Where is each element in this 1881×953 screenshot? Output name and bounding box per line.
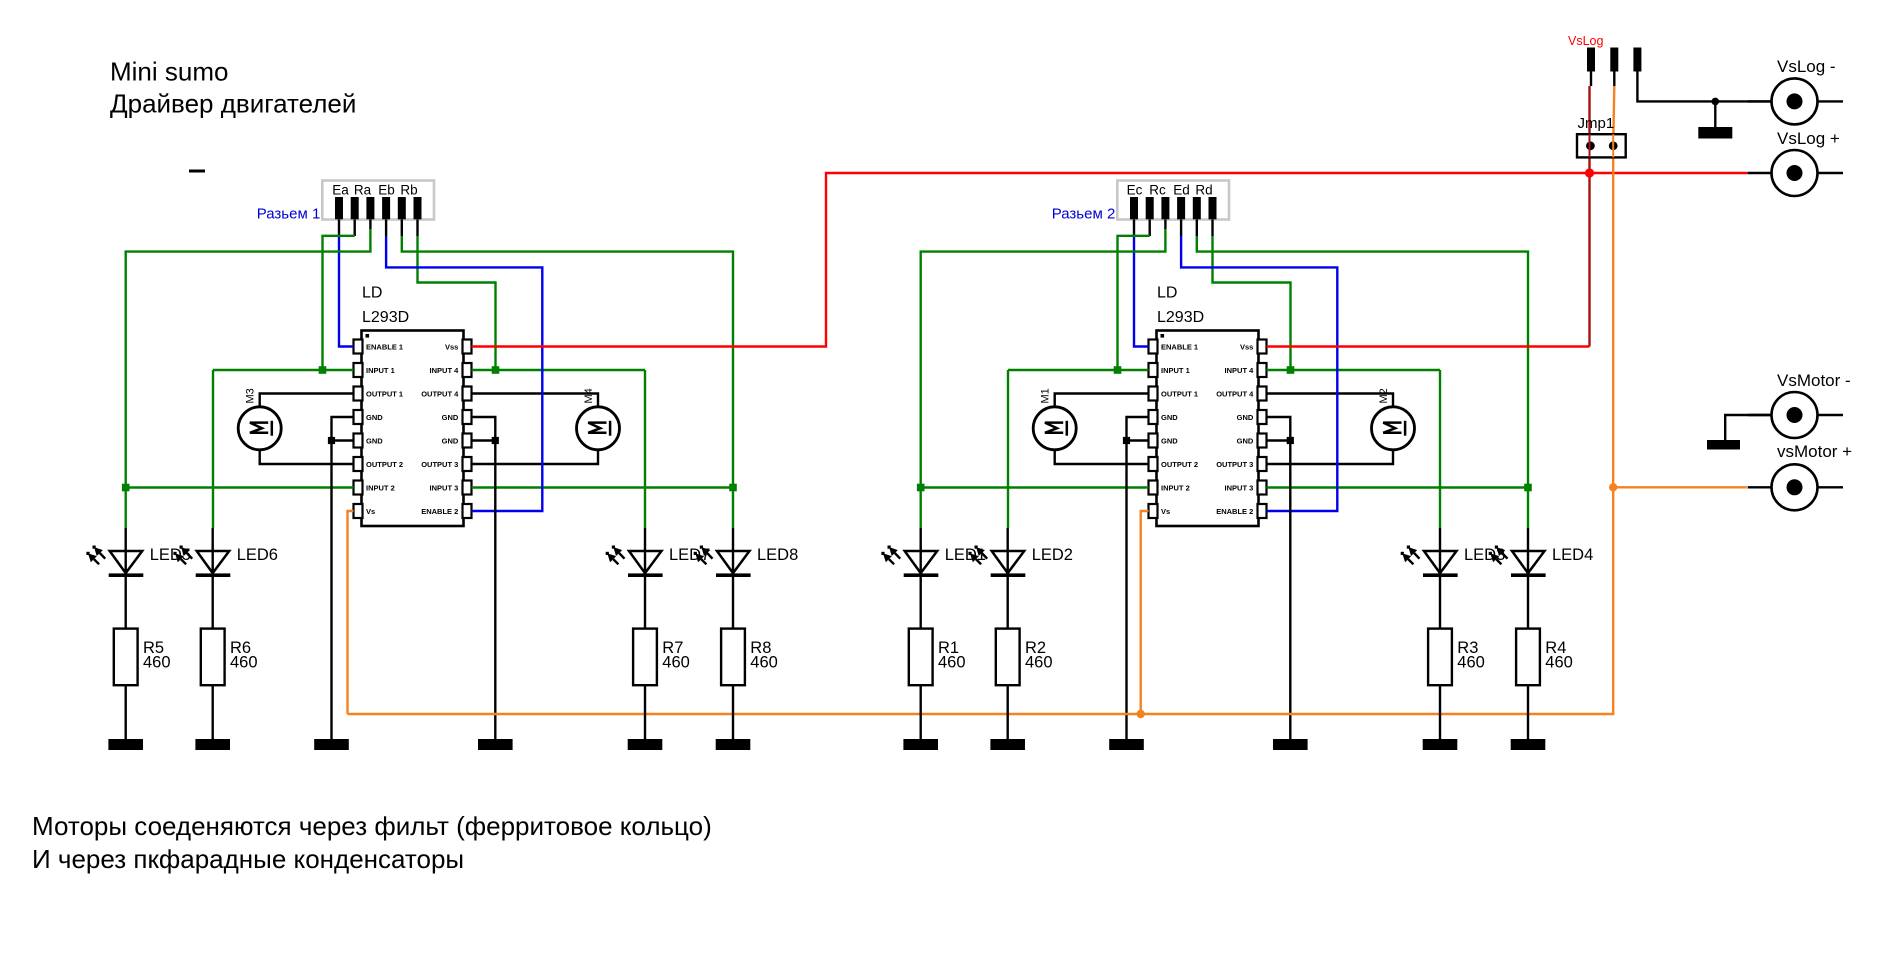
ground	[195, 739, 230, 750]
svg-text:VsLog: VsLog	[1568, 34, 1603, 48]
ground	[108, 739, 143, 750]
pin label Ea	[332, 182, 349, 197]
IC U2 right pin GND	[1237, 434, 1267, 448]
IC U2 body	[1157, 331, 1259, 527]
value 460	[662, 654, 690, 672]
label LED8	[757, 546, 798, 564]
svg-text:И через пкфарадные конденсатор: И через пкфарадные конденсаторы	[32, 844, 464, 874]
IC U2 left pin INPUT 1	[1149, 363, 1190, 377]
label LED5	[150, 546, 191, 564]
label Разьем 1	[257, 205, 321, 222]
connector Разьем 1 pin 4	[382, 197, 390, 219]
resistor R3	[1428, 629, 1452, 686]
power pin 2	[1610, 48, 1618, 87]
IC U2 right pin INPUT 3	[1225, 481, 1267, 495]
svg-text:Разьем 1: Разьем 1	[257, 205, 321, 222]
wire LED feed	[211, 528, 213, 629]
connector lead pin 2	[1148, 220, 1150, 237]
wire LED feed	[1439, 528, 1441, 629]
wire net Rb (blue) to ENABLE 2	[386, 236, 542, 511]
svg-text:GND: GND	[1161, 413, 1178, 422]
label R1	[938, 639, 959, 657]
wire GND left 2	[332, 439, 354, 441]
pin label Eb	[378, 182, 395, 197]
IC U1 left pin GND	[354, 434, 384, 448]
connector lead pin 4	[385, 220, 387, 237]
motor M3	[238, 407, 281, 450]
wire net Ec (blue) to ENABLE 1	[1134, 236, 1149, 347]
power pin 3	[1633, 48, 1641, 72]
svg-text:OUTPUT 2: OUTPUT 2	[1161, 460, 1198, 469]
connector Разьем 1 pin 5	[398, 197, 406, 219]
svg-text:INPUT 2: INPUT 2	[366, 483, 395, 492]
wire resistor to ground	[644, 685, 646, 739]
ground	[628, 739, 663, 750]
svg-text:460: 460	[750, 654, 778, 672]
svg-text:OUTPUT 1: OUTPUT 1	[1161, 389, 1198, 398]
junction INPUT 1	[319, 366, 327, 374]
IC U1 right pin OUTPUT 3	[421, 457, 471, 471]
ground	[716, 739, 751, 750]
value 460	[230, 654, 258, 672]
svg-text:INPUT 1: INPUT 1	[1161, 366, 1190, 375]
wire GND right 2	[472, 439, 496, 441]
label LED3	[1464, 546, 1505, 564]
junction GND left	[328, 437, 335, 444]
pin label Ed	[1173, 182, 1190, 197]
wire OUTPUT top to motor M4	[472, 394, 599, 407]
terminal VsLog -	[1772, 78, 1818, 124]
connector lead pin 5	[1196, 220, 1198, 237]
label R2	[1025, 639, 1046, 657]
label R6	[230, 639, 251, 657]
IC U2 left pin OUTPUT 1	[1149, 387, 1199, 401]
LED LED7	[606, 546, 663, 578]
motor M1	[1033, 407, 1076, 450]
connector Разьем 2 pin 2	[1146, 197, 1154, 219]
terminal lead vsMotor +	[1748, 486, 1843, 488]
connector lead pin 1	[338, 220, 340, 237]
pin label Rc	[1149, 182, 1166, 197]
svg-text:Ra: Ra	[354, 182, 372, 197]
connector Разьем 2 pin 3	[1161, 197, 1169, 219]
wire LED feed	[644, 528, 646, 629]
IC U2 left pin Vs	[1149, 504, 1171, 518]
wire down to LED	[1439, 370, 1441, 528]
resistor R6	[201, 629, 225, 686]
connector lead pin 1	[1133, 220, 1135, 237]
svg-text:Ea: Ea	[332, 182, 349, 197]
svg-text:LED8: LED8	[757, 546, 798, 564]
IC U2 left pin OUTPUT 2	[1149, 457, 1199, 471]
IC U2 right pin INPUT 4	[1225, 363, 1267, 377]
connector Разьем 1 pin 1	[335, 197, 343, 219]
pin label Rb	[400, 182, 417, 197]
terminal lead VsLog +	[1748, 172, 1843, 174]
wire INPUT 4 row	[1267, 369, 1441, 371]
ground	[1273, 739, 1308, 750]
IC U1 value label L293D	[362, 309, 409, 326]
label R8	[750, 639, 771, 657]
label vsMotor +	[1777, 442, 1852, 461]
motor M3 label	[245, 388, 257, 403]
junction INPUT 4	[492, 366, 500, 374]
wire OUTPUT bottom to motor M4	[472, 450, 599, 464]
svg-text:LED2: LED2	[1032, 546, 1073, 564]
wire OUTPUT top to motor M2	[1267, 394, 1394, 407]
IC U1 pin-1 marker	[366, 334, 370, 338]
svg-text:460: 460	[143, 654, 171, 672]
svg-text:ENABLE 1: ENABLE 1	[1161, 342, 1198, 351]
motor M1 label	[1040, 388, 1052, 403]
wire OUTPUT bottom to motor M2	[1267, 450, 1394, 464]
svg-text:OUTPUT 3: OUTPUT 3	[421, 460, 458, 469]
terminal lead VsMotor -	[1748, 414, 1843, 416]
motor M4 label	[583, 388, 595, 403]
pin label Ec	[1127, 182, 1143, 197]
wire net Eb (green) vertical	[126, 229, 371, 488]
svg-text:VsLog +: VsLog +	[1777, 129, 1840, 148]
IC U2 right pin Vss	[1240, 340, 1267, 354]
svg-text:460: 460	[1025, 654, 1053, 672]
svg-text:L293D: L293D	[1157, 309, 1204, 326]
IC U2 right pin ENABLE 2	[1216, 504, 1266, 518]
connector lead pin 2	[354, 220, 356, 237]
wire GND left	[1127, 417, 1149, 739]
wire down to LED	[920, 488, 922, 529]
connector lead pin 3	[1164, 220, 1166, 230]
svg-text:Разьем 2: Разьем 2	[1052, 205, 1116, 222]
IC U1 left pin Vs	[354, 504, 376, 518]
wire INPUT 3 row	[1267, 486, 1529, 488]
ground (VsLog-)	[1698, 101, 1732, 138]
wire net Rc (green) to INPUT 1	[1118, 236, 1150, 370]
wire net Ea (blue) to ENABLE 1	[339, 236, 354, 347]
pin label Rd	[1195, 182, 1212, 197]
junction VsLog- ground	[1712, 98, 1720, 106]
label LED2	[1032, 546, 1073, 564]
svg-text:Драйвер двигателей: Драйвер двигателей	[110, 89, 356, 119]
IC U2 left pin GND	[1149, 410, 1179, 424]
LED LED4	[1489, 546, 1546, 578]
wire Vs U2 (orange)	[1141, 511, 1149, 714]
svg-text:460: 460	[1457, 654, 1485, 672]
IC U2 left pin GND	[1149, 434, 1179, 448]
ground (VsMotor-)	[1707, 440, 1740, 450]
wire resistor to ground	[211, 685, 213, 739]
ground	[1109, 739, 1144, 750]
motor M2 label	[1378, 388, 1390, 403]
wire LED feed	[1007, 528, 1009, 629]
LED LED1	[881, 546, 938, 578]
wire net pin5 (green)	[1197, 236, 1528, 488]
wire INPUT 1 row	[213, 369, 354, 371]
label VsMotor -	[1777, 371, 1851, 390]
label LED6	[237, 546, 278, 564]
junction GND right	[492, 437, 499, 444]
connector Разьем 2 pin 4	[1177, 197, 1185, 219]
IC U2 left pin ENABLE 1	[1149, 340, 1199, 354]
IC U1 right pin INPUT 4	[430, 363, 472, 377]
wire LED feed	[920, 528, 922, 629]
wire net pin5 (green)	[402, 236, 733, 488]
svg-text:460: 460	[662, 654, 690, 672]
junction GND left	[1123, 437, 1130, 444]
wire INPUT 4 row	[472, 369, 646, 371]
wire INPUT 3 row	[472, 486, 734, 488]
svg-text:Rc: Rc	[1149, 182, 1166, 197]
wire resistor to ground	[920, 685, 922, 739]
svg-text:M2: M2	[1378, 388, 1390, 403]
label VsLog +	[1777, 129, 1840, 148]
ground	[903, 739, 938, 750]
label LED1	[945, 546, 986, 564]
svg-text:ENABLE 2: ENABLE 2	[1216, 507, 1253, 516]
connector Разьем 1 pin 3	[366, 197, 374, 219]
svg-text:Ec: Ec	[1127, 182, 1143, 197]
wire down to LED	[1527, 488, 1529, 529]
IC U2 right pin OUTPUT 4	[1216, 387, 1266, 401]
IC U1 left pin INPUT 2	[354, 481, 395, 495]
wire OUTPUT top to motor M1	[1055, 394, 1149, 407]
value 460	[1025, 654, 1053, 672]
label Jmp1	[1578, 115, 1615, 132]
junction VsLog	[1585, 168, 1594, 177]
junction INPUT 1	[1114, 366, 1122, 374]
svg-text:INPUT 3: INPUT 3	[1225, 483, 1254, 492]
svg-text:Rd: Rd	[1195, 182, 1212, 197]
svg-text:Mini sumo: Mini sumo	[110, 57, 228, 87]
ground	[990, 739, 1025, 750]
svg-text:ENABLE 1: ENABLE 1	[366, 342, 403, 351]
svg-text:Eb: Eb	[378, 182, 395, 197]
IC U2 pin-1 marker	[1161, 334, 1165, 338]
svg-text:460: 460	[938, 654, 966, 672]
svg-text:Vss: Vss	[445, 342, 458, 351]
svg-text:vsMotor +: vsMotor +	[1777, 442, 1852, 461]
value 460	[938, 654, 966, 672]
svg-text:ENABLE 2: ENABLE 2	[421, 507, 458, 516]
IC U1 right pin GND	[442, 410, 472, 424]
wire LED feed	[124, 528, 126, 629]
wire GND right	[472, 417, 496, 739]
svg-text:M3: M3	[245, 388, 257, 403]
resistor R2	[996, 629, 1020, 686]
label Разьем 2	[1052, 205, 1116, 222]
label VsLog -	[1777, 57, 1836, 76]
label R3	[1457, 639, 1478, 657]
wire INPUT 1 down to LED	[1007, 370, 1009, 528]
junction INPUT 2	[917, 484, 925, 492]
svg-text:LED4: LED4	[1552, 546, 1593, 564]
connector Разьем 2 box	[1117, 181, 1229, 220]
ground	[314, 739, 349, 750]
svg-text:GND: GND	[1237, 413, 1254, 422]
svg-text:460: 460	[1545, 654, 1573, 672]
wire net pin6 (green)	[418, 236, 496, 370]
label R4	[1545, 639, 1566, 657]
wire down to LED	[124, 488, 126, 529]
jumper Jmp1	[1577, 134, 1626, 157]
svg-text:LD: LD	[362, 285, 382, 302]
wire GND left	[332, 417, 354, 739]
svg-text:INPUT 2: INPUT 2	[1161, 483, 1190, 492]
svg-text:GND: GND	[442, 436, 459, 445]
IC U1 right pin ENABLE 2	[421, 504, 471, 518]
svg-text:VsMotor -: VsMotor -	[1777, 371, 1851, 390]
svg-text:VsLog -: VsLog -	[1777, 57, 1836, 76]
wire resistor to ground	[1439, 685, 1441, 739]
svg-text:L293D: L293D	[362, 309, 409, 326]
ground	[478, 739, 513, 750]
svg-text:OUTPUT 1: OUTPUT 1	[366, 389, 403, 398]
terminal lead VsLog -	[1748, 100, 1843, 102]
wire INPUT 1 row	[1008, 369, 1149, 371]
resistor R5	[114, 629, 138, 686]
wire pin2 to Jmp1 (orange)	[1613, 86, 1614, 487]
svg-text:LED6: LED6	[237, 546, 278, 564]
svg-text:INPUT 4: INPUT 4	[430, 366, 460, 375]
wire resistor to ground	[1007, 685, 1009, 739]
terminal VsLog +	[1772, 150, 1818, 196]
connector lead pin 4	[1180, 220, 1182, 237]
value 460	[1457, 654, 1485, 672]
svg-text:INPUT 4: INPUT 4	[1225, 366, 1255, 375]
terminal vsMotor +	[1772, 464, 1818, 510]
wire INPUT 1 down to LED	[212, 370, 214, 528]
svg-text:M1: M1	[1040, 388, 1052, 403]
IC U1 right pin OUTPUT 4	[421, 387, 471, 401]
svg-text:Vss: Vss	[1240, 342, 1253, 351]
dash mark	[189, 170, 205, 173]
svg-text:460: 460	[230, 654, 258, 672]
wire net Ed (green) vertical	[921, 229, 1166, 488]
wire Vss U2 (red)	[1267, 345, 1590, 347]
IC U2 left pin INPUT 2	[1149, 481, 1190, 495]
wire GND right 2	[1267, 439, 1291, 441]
wire Vs U1 (orange)	[348, 511, 354, 714]
wire down to LED	[644, 370, 646, 528]
wire VsMotor- to ground	[1725, 415, 1771, 440]
connector lead pin 6	[416, 220, 418, 237]
wire resistor to ground	[1527, 685, 1529, 739]
title text 'Mini sumo'	[110, 57, 228, 87]
title text 'Драйвер двигателей'	[110, 89, 356, 119]
label LED4	[1552, 546, 1593, 564]
junction INPUT 3	[729, 484, 737, 492]
connector Разьем 2 pin 5	[1193, 197, 1201, 219]
junction INPUT 4	[1287, 366, 1295, 374]
svg-text:Ed: Ed	[1173, 182, 1190, 197]
svg-text:OUTPUT 2: OUTPUT 2	[366, 460, 403, 469]
svg-text:GND: GND	[366, 413, 383, 422]
wire resistor to ground	[732, 685, 734, 739]
svg-text:GND: GND	[442, 413, 459, 422]
connector Разьем 1 box	[322, 181, 434, 220]
svg-text:Jmp1: Jmp1	[1578, 115, 1615, 132]
connector Разьем 1 pin 2	[351, 197, 359, 219]
note line 2	[32, 844, 464, 874]
ground	[1511, 739, 1546, 750]
svg-text:GND: GND	[1161, 436, 1178, 445]
label VsLog (red)	[1568, 34, 1603, 48]
wire OUTPUT top to motor M3	[260, 394, 354, 407]
svg-text:LD: LD	[1157, 285, 1177, 302]
IC U2 value label L293D	[1157, 309, 1204, 326]
note line 1	[32, 811, 712, 841]
LED LED6	[173, 546, 230, 578]
svg-text:GND: GND	[1237, 436, 1254, 445]
connector lead pin 3	[369, 220, 371, 230]
wire vsMotor bottom rail (orange)	[348, 487, 1614, 714]
wire LED feed	[1527, 528, 1529, 629]
label R5	[143, 639, 164, 657]
resistor R1	[909, 629, 933, 686]
junction GND right	[1287, 437, 1294, 444]
IC U1 right pin Vss	[445, 340, 472, 354]
IC U1 ref label LD	[362, 285, 382, 302]
wire net pin6 (green)	[1213, 236, 1291, 370]
LED LED5	[86, 546, 143, 578]
wire GND left 2	[1127, 439, 1149, 441]
pin label Ra	[354, 182, 372, 197]
wire vsMotor+ (orange)	[1613, 486, 1747, 488]
resistor R8	[721, 629, 745, 686]
wire INPUT 2 row	[126, 486, 354, 488]
motor M2	[1372, 407, 1415, 450]
resistor R7	[633, 629, 657, 686]
svg-text:INPUT 1: INPUT 1	[366, 366, 395, 375]
value 460	[143, 654, 171, 672]
IC U1 right pin GND	[442, 434, 472, 448]
svg-text:Vs: Vs	[366, 507, 375, 516]
IC U1 left pin OUTPUT 2	[354, 457, 404, 471]
IC U1 left pin ENABLE 1	[354, 340, 404, 354]
wire Vss U1 (red)	[472, 173, 1748, 347]
connector Разьем 2 pin 6	[1209, 197, 1217, 219]
IC U1 left pin INPUT 1	[354, 363, 395, 377]
wire INPUT 2 row	[921, 486, 1149, 488]
LED LED2	[968, 546, 1025, 578]
connector lead pin 6	[1211, 220, 1213, 237]
IC U1 left pin OUTPUT 1	[354, 387, 404, 401]
wire VsLog- (black)	[1637, 72, 1771, 102]
power pin 1	[1587, 48, 1595, 87]
wire OUTPUT bottom to motor M1	[1055, 450, 1149, 464]
wire LED feed	[732, 528, 734, 629]
svg-text:M4: M4	[583, 388, 595, 403]
wire net Rd (blue) to ENABLE 2	[1181, 236, 1337, 511]
connector Разьем 1 pin 6	[414, 197, 422, 219]
wire VsLog vertical (dark red)	[1588, 86, 1590, 347]
junction INPUT 2	[122, 484, 130, 492]
LED LED8	[694, 546, 751, 578]
svg-text:OUTPUT 4: OUTPUT 4	[421, 389, 459, 398]
junction Vs U2 rail	[1137, 710, 1145, 718]
IC U1 right pin INPUT 3	[430, 481, 472, 495]
wire OUTPUT bottom to motor M3	[260, 450, 354, 464]
value 460	[1545, 654, 1573, 672]
label LED7	[669, 546, 710, 564]
connector lead pin 5	[401, 220, 403, 237]
svg-text:INPUT 3: INPUT 3	[430, 483, 459, 492]
svg-text:GND: GND	[366, 436, 383, 445]
connector Разьем 2 pin 1	[1130, 197, 1138, 219]
wire resistor to ground	[124, 685, 126, 739]
wire down to LED	[732, 488, 734, 529]
IC U2 right pin OUTPUT 3	[1216, 457, 1266, 471]
svg-text:OUTPUT 4: OUTPUT 4	[1216, 389, 1254, 398]
